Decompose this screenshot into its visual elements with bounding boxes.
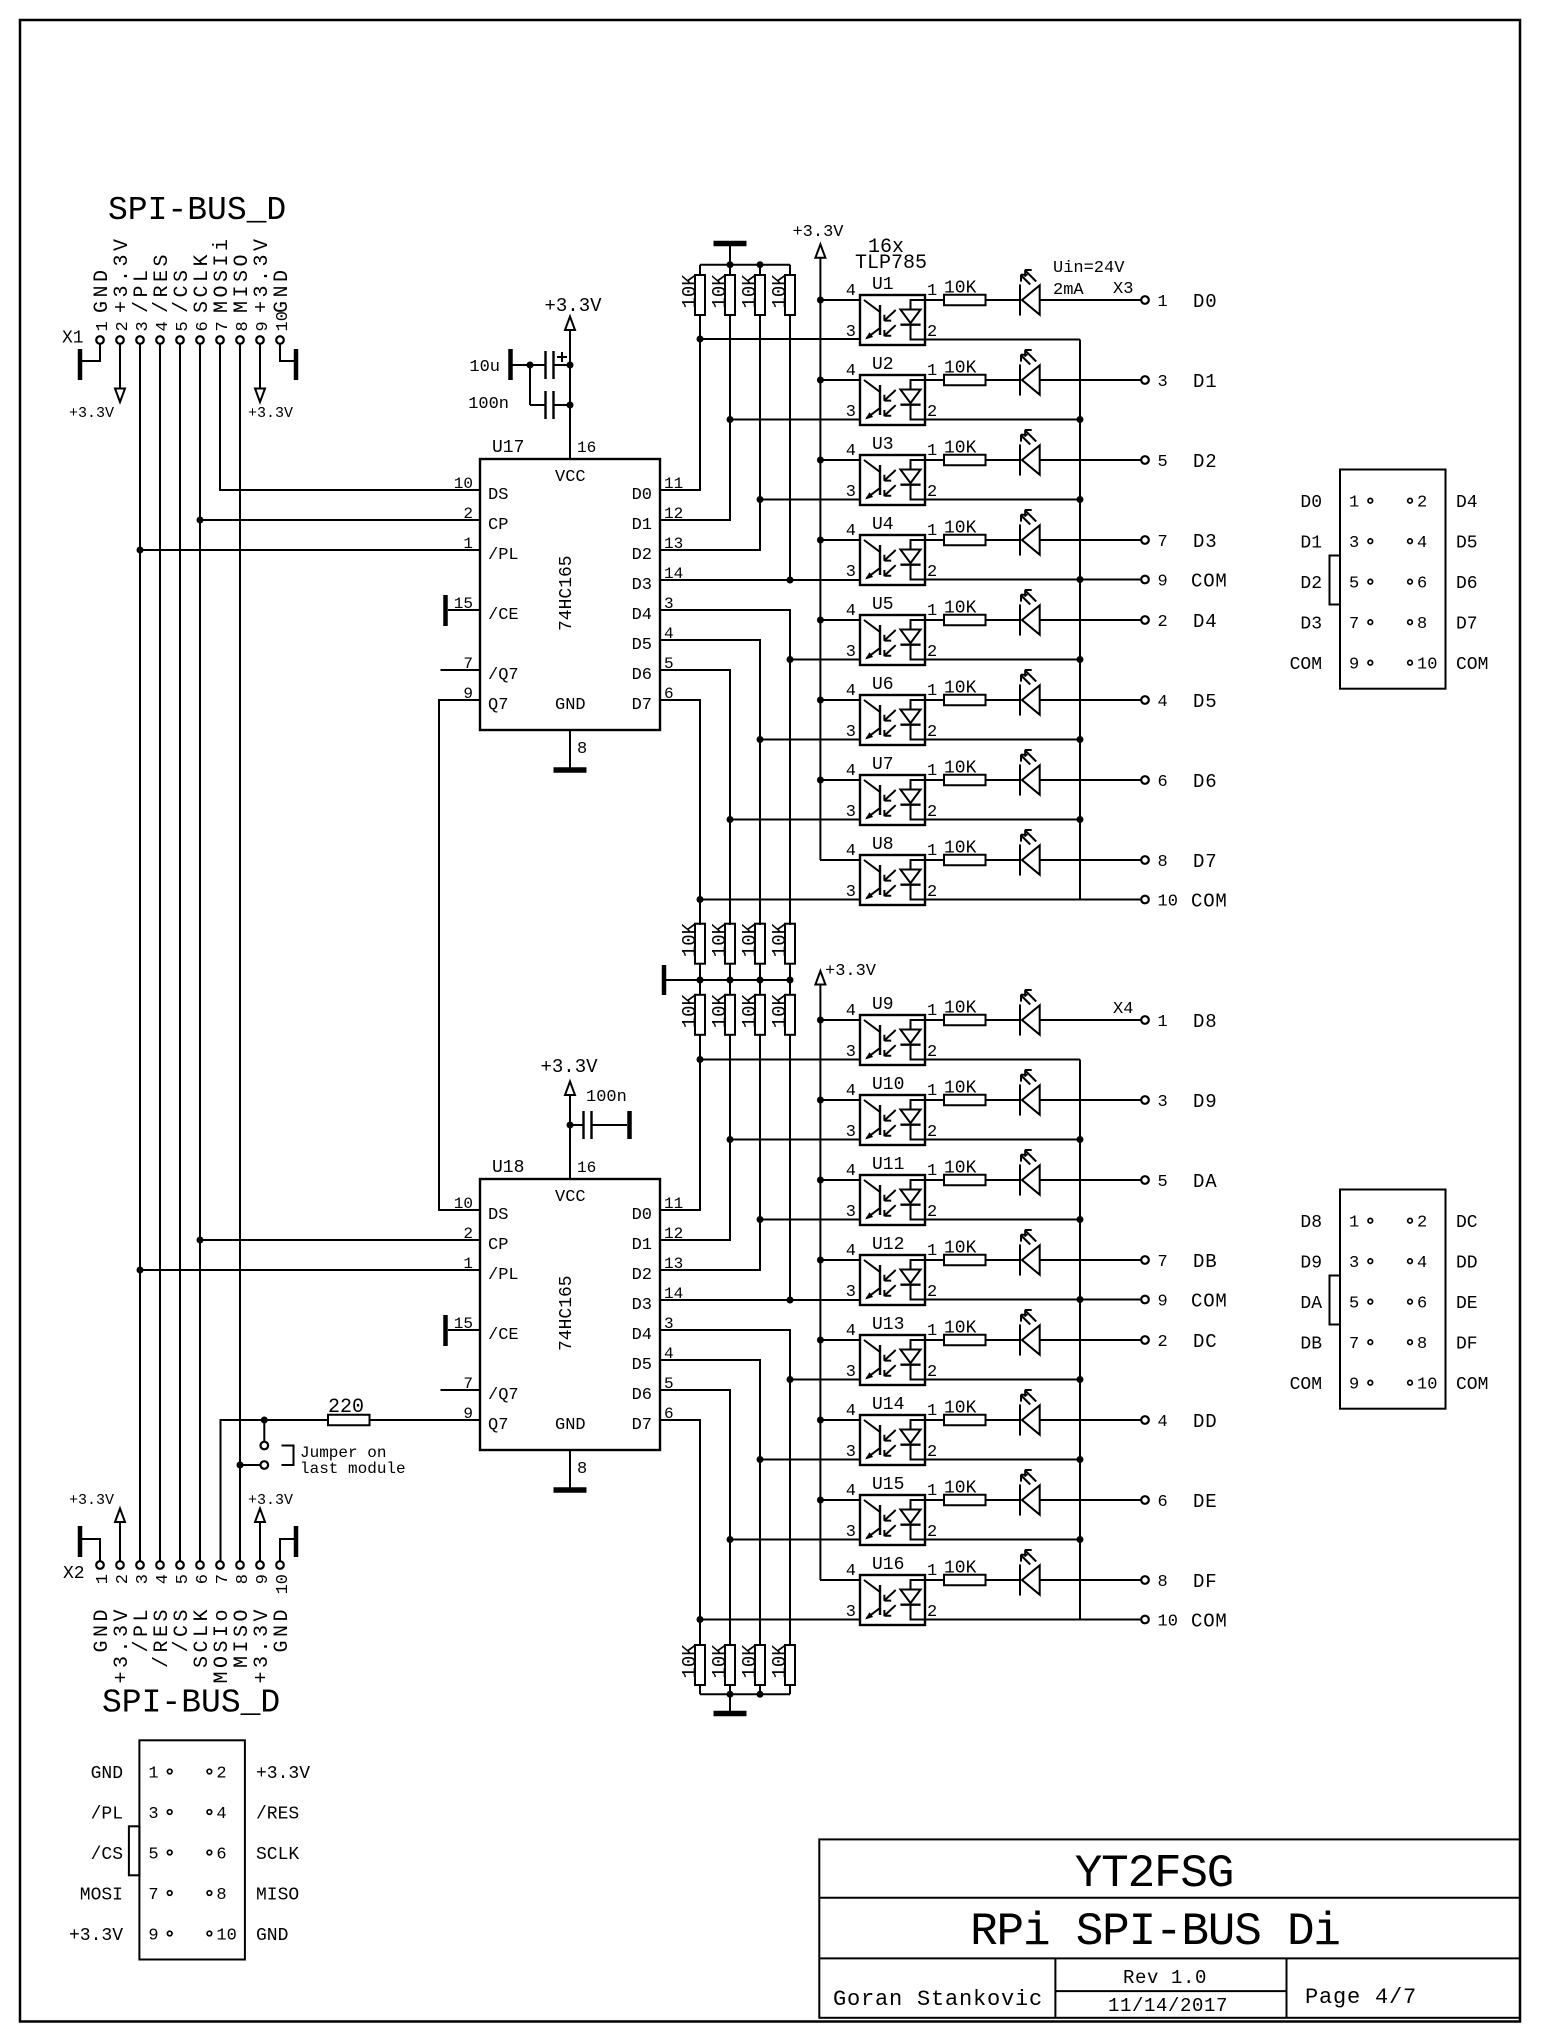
wire net DC	[660, 1330, 860, 1645]
junction SCLK-U18	[197, 1237, 204, 1244]
junction COM 1380	[1077, 1376, 1084, 1383]
svg-text:D1: D1	[632, 1236, 652, 1255]
svg-text:D2: D2	[632, 1266, 652, 1285]
junction D4	[787, 656, 794, 663]
svg-text:RPi SPI-BUS Di: RPi SPI-BUS Di	[970, 1906, 1340, 1958]
svg-text:7: 7	[214, 1574, 233, 1584]
svg-text:1: 1	[94, 1574, 113, 1584]
svg-text:10: 10	[1158, 1613, 1178, 1632]
svg-text:D3: D3	[632, 1296, 652, 1315]
svg-text:+3.3V: +3.3V	[248, 405, 293, 422]
svg-text:DS: DS	[488, 486, 508, 505]
svg-text:U10: U10	[872, 1075, 904, 1095]
junction D2	[757, 496, 764, 503]
svg-text:D6: D6	[632, 666, 652, 685]
wire net DA	[660, 1035, 860, 1270]
junction D3	[787, 577, 794, 584]
svg-text:COM: COM	[1191, 1291, 1228, 1313]
jumper (last module)	[240, 1420, 406, 1478]
svg-text:DB: DB	[1300, 1335, 1322, 1355]
svg-text:U12: U12	[872, 1235, 904, 1255]
supply +3.3V (U17 VCC)	[565, 317, 575, 331]
svg-text:7: 7	[214, 321, 233, 331]
junction middle bus x=730	[727, 977, 734, 984]
svg-text:/Q7: /Q7	[488, 1386, 519, 1405]
svg-text:D9: D9	[1300, 1254, 1322, 1274]
wire net D5	[660, 640, 860, 925]
junction middle bus x=700	[697, 977, 704, 984]
junction rail U4 pin4	[817, 537, 824, 544]
svg-text:+3.3V: +3.3V	[544, 295, 602, 317]
junction COM 1140	[1077, 1136, 1084, 1143]
resistor 10K / LED output DB	[925, 1230, 1149, 1276]
svg-text:last module: last module	[300, 1460, 406, 1478]
svg-text:DD: DD	[1456, 1254, 1478, 1274]
junction D1	[727, 416, 734, 423]
wire bottom bank bus	[700, 1685, 790, 1711]
optocoupler U11 TLP785	[820, 1162, 1080, 1225]
svg-text:Uin=24V: Uin=24V	[1053, 259, 1125, 278]
svg-text:8: 8	[1158, 1573, 1168, 1592]
optocoupler U12 TLP785	[820, 1242, 1080, 1305]
U17 pin16 VCC wire	[569, 330, 571, 459]
svg-text:D9: D9	[1193, 1091, 1217, 1113]
resistor 10K / LED output DE	[925, 1470, 1149, 1516]
resistor 10K / LED output DC	[925, 1310, 1149, 1356]
svg-text:GND: GND	[271, 266, 294, 313]
svg-text:D7: D7	[1456, 615, 1478, 635]
svg-text:74HC165: 74HC165	[557, 555, 577, 631]
junction bottom bus 2	[757, 1691, 764, 1698]
svg-text:U6: U6	[872, 675, 894, 695]
resistor 10K pull-down (bottom bank 3)	[739, 1644, 765, 1685]
svg-text:SPI-BUS_D: SPI-BUS_D	[108, 192, 286, 229]
svg-text:U14: U14	[872, 1395, 904, 1415]
svg-text:X3: X3	[1113, 280, 1133, 299]
wire U17 Q7 to U18 DS	[439, 700, 480, 1210]
optocoupler U5 TLP785	[820, 602, 1080, 665]
resistor 10K / LED output DD	[925, 1390, 1149, 1436]
svg-text:D0: D0	[632, 486, 652, 505]
resistor 10K / LED output D1	[925, 350, 1149, 396]
svg-text:U18: U18	[492, 1158, 524, 1178]
ground (X2 pin 1)	[82, 1539, 100, 1561]
resistor 10K pull-down (bottom bank 2)	[709, 1644, 735, 1685]
supply +3.3V (X2 pin 2)	[119, 1522, 121, 1561]
svg-text:U15: U15	[872, 1475, 904, 1495]
svg-text:+3.3V: +3.3V	[69, 405, 114, 422]
svg-text:5: 5	[1158, 453, 1168, 472]
svg-text:U2: U2	[872, 355, 894, 375]
resistor 10K pull-down (mid bottom 4)	[769, 993, 795, 1034]
resistor 10K / LED output D8	[925, 990, 1149, 1036]
junction D5	[757, 736, 764, 743]
svg-text:DF: DF	[1193, 1571, 1217, 1593]
junction COM 1300	[1077, 1296, 1084, 1303]
svg-text:10: 10	[274, 311, 293, 331]
ground (U17 pin 8)	[569, 730, 571, 768]
resistor 10K / LED output D2	[925, 430, 1149, 476]
svg-text:COM: COM	[1456, 1375, 1488, 1395]
svg-text:VCC: VCC	[555, 1188, 586, 1207]
svg-text:/RES: /RES	[256, 1805, 299, 1825]
svg-text:DS: DS	[488, 1206, 508, 1225]
svg-text:GND: GND	[256, 1926, 288, 1946]
optocoupler U3 TLP785	[820, 442, 1080, 505]
svg-text:D0: D0	[632, 1206, 652, 1225]
optocoupler U9 TLP785	[820, 1002, 1080, 1065]
svg-text:DB: DB	[1193, 1251, 1217, 1273]
svg-text:D8: D8	[1300, 1213, 1322, 1233]
svg-text:U1: U1	[872, 275, 894, 295]
junction MOSIo-jumper	[261, 1417, 268, 1424]
svg-text:11/14/2017: 11/14/2017	[1108, 1995, 1228, 2017]
svg-text:2mA: 2mA	[1053, 281, 1084, 300]
connector X3 pin 10 COM	[1141, 896, 1149, 904]
svg-text:X2: X2	[63, 1564, 85, 1584]
junction COM 500	[1077, 496, 1084, 503]
svg-text:+3.3V: +3.3V	[69, 1926, 123, 1946]
junction COM 1540	[1077, 1536, 1084, 1543]
wire net D3	[660, 315, 860, 580]
svg-text:D2: D2	[1193, 451, 1217, 473]
ground (bottom resistor bank)	[714, 1713, 747, 1715]
optocoupler U10 TLP785	[820, 1082, 1080, 1145]
wire cap link	[529, 365, 531, 405]
svg-text:D1: D1	[1193, 371, 1217, 393]
svg-text:COM: COM	[1290, 655, 1322, 675]
ground (X2 pin 10)	[280, 1539, 294, 1561]
junction COM 660	[1077, 656, 1084, 663]
svg-text:5: 5	[1158, 1173, 1168, 1192]
title block	[819, 1839, 1520, 2017]
optocoupler U6 TLP785	[820, 682, 1080, 745]
svg-text:DA: DA	[1193, 1171, 1217, 1193]
resistor 10K / LED output D3	[925, 510, 1149, 556]
IC U18 74HC165	[454, 1158, 683, 1450]
junction COM 1220	[1077, 1216, 1084, 1223]
resistor 10K / LED output D0	[925, 270, 1149, 316]
svg-text:1: 1	[1158, 293, 1168, 312]
svg-text:+3.3V: +3.3V	[248, 1492, 293, 1509]
resistor 10K pull-down (mid top 2)	[709, 922, 735, 963]
junction COM 820	[1077, 816, 1084, 823]
svg-text:U4: U4	[872, 515, 894, 535]
svg-text:+3.3V: +3.3V	[792, 223, 844, 242]
resistor 10K pull-down (mid bottom 2)	[709, 993, 735, 1034]
svg-text:U17: U17	[492, 438, 524, 458]
svg-text:9: 9	[1158, 1293, 1168, 1312]
svg-text:X1: X1	[62, 329, 84, 349]
junction DB	[787, 1297, 794, 1304]
svg-text:74HC165: 74HC165	[557, 1275, 577, 1351]
junction rail U3 pin4	[817, 457, 824, 464]
svg-text:D1: D1	[632, 516, 652, 535]
svg-text:D6: D6	[1193, 771, 1217, 793]
svg-text:/CS: /CS	[91, 1845, 123, 1865]
svg-text:U5: U5	[872, 595, 894, 615]
wire net MOSIi	[220, 344, 480, 490]
svg-text:1: 1	[1158, 1013, 1168, 1032]
junction rail U7 pin4	[817, 777, 824, 784]
svg-text:2: 2	[463, 505, 473, 523]
ground (X1 pin 10)	[280, 344, 294, 361]
U18 pin /Q7 stub	[441, 1389, 481, 1391]
svg-text:SCLK: SCLK	[256, 1845, 299, 1865]
ground (U18 pin 8)	[569, 1450, 571, 1488]
optocoupler U2 TLP785	[820, 362, 1080, 425]
svg-text:X4: X4	[1113, 1000, 1133, 1019]
junction COM 1460	[1077, 1456, 1084, 1463]
svg-text:8: 8	[577, 740, 587, 759]
svg-text:U7: U7	[872, 755, 894, 775]
svg-text:Q7: Q7	[488, 696, 508, 715]
resistor 10K / LED output D7	[925, 830, 1149, 876]
svg-text:16: 16	[577, 1159, 596, 1177]
svg-text:COM: COM	[1191, 1611, 1228, 1633]
svg-text:DE: DE	[1456, 1294, 1478, 1314]
junction rail U10 pin4	[817, 1097, 824, 1104]
junction MISO-jumper	[237, 1462, 244, 1469]
junction rail U6 pin4	[817, 697, 824, 704]
junction COM 580	[1077, 576, 1084, 583]
svg-text:16: 16	[577, 439, 596, 457]
svg-text:5: 5	[174, 1574, 193, 1584]
wire net D1	[660, 315, 860, 520]
svg-text:/Q7: /Q7	[488, 666, 519, 685]
resistor 10K pull-down (top bank 3)	[739, 274, 765, 315]
resistor 10K / LED output DA	[925, 1150, 1149, 1196]
svg-text:MOSI: MOSI	[80, 1886, 123, 1906]
svg-text:COM: COM	[1191, 571, 1228, 593]
junction rail U5 pin4	[817, 617, 824, 624]
svg-text:D7: D7	[632, 1416, 652, 1435]
svg-text:+3.3V: +3.3V	[825, 962, 877, 981]
svg-text:CP: CP	[488, 516, 508, 535]
resistor 10K pull-down (top bank 2)	[709, 274, 735, 315]
svg-text:U3: U3	[872, 435, 894, 455]
wire net COM (lower)	[1080, 1060, 1141, 1620]
svg-text:10u: 10u	[469, 358, 500, 377]
optocoupler U8 TLP785	[820, 842, 1080, 905]
junction COM 420	[1077, 416, 1084, 423]
resistor 220 (MOSI out)	[328, 1396, 480, 1425]
junction middle bus x=760	[757, 977, 764, 984]
svg-text:9: 9	[254, 1574, 273, 1584]
svg-text:6: 6	[1158, 773, 1168, 792]
svg-text:3: 3	[1158, 373, 1168, 392]
resistor 10K / LED output D9	[925, 1070, 1149, 1116]
svg-text:4: 4	[1158, 693, 1168, 712]
junction rail U9 pin4	[817, 1017, 824, 1024]
svg-text:D0: D0	[1300, 493, 1322, 513]
wire top bank bus	[700, 265, 790, 275]
junction 100n-VCC	[567, 402, 574, 409]
svg-text:DA: DA	[1300, 1294, 1322, 1314]
svg-text:DE: DE	[1193, 1491, 1217, 1513]
svg-text:GND: GND	[555, 696, 586, 715]
junction rail U15 pin4	[817, 1497, 824, 1504]
resistor 10K / LED output DF	[925, 1550, 1149, 1596]
svg-text:2: 2	[114, 321, 133, 331]
junction 10u-VCC	[567, 362, 574, 369]
svg-text:9: 9	[254, 321, 273, 331]
junction D7	[697, 896, 704, 903]
junction /PL-U18	[137, 1267, 144, 1274]
svg-text:D4: D4	[632, 1326, 652, 1345]
svg-text:4: 4	[154, 321, 173, 331]
svg-text:U11: U11	[872, 1155, 904, 1175]
svg-text:/PL: /PL	[488, 1266, 519, 1285]
junction D9	[727, 1136, 734, 1143]
svg-text:U16: U16	[872, 1555, 904, 1575]
svg-text:MISO: MISO	[256, 1886, 299, 1906]
capacitor 100n (U17)	[468, 391, 570, 419]
resistor 10K pull-down (mid top 3)	[739, 922, 765, 963]
svg-text:D7: D7	[1193, 851, 1217, 873]
junction rail U2 pin4	[817, 377, 824, 384]
svg-text:4: 4	[1158, 1413, 1168, 1432]
resistor 10K / LED output D4	[925, 590, 1149, 636]
svg-text:9: 9	[1158, 573, 1168, 592]
svg-text:D2: D2	[1300, 574, 1322, 594]
resistor 10K pull-down (top bank 4)	[769, 274, 795, 315]
svg-text:6: 6	[194, 321, 213, 331]
svg-text:8: 8	[577, 1460, 587, 1479]
svg-text:D6: D6	[632, 1386, 652, 1405]
svg-text:4: 4	[154, 1574, 173, 1584]
ground (middle resistor bank)	[662, 965, 667, 995]
svg-text:D0: D0	[1193, 291, 1217, 313]
wire net D2	[660, 315, 860, 550]
svg-text:D3: D3	[1193, 531, 1217, 553]
junction DE	[727, 1536, 734, 1543]
wire net DD	[660, 1360, 860, 1645]
optocoupler U16 TLP785	[820, 1562, 1080, 1625]
svg-text:1: 1	[463, 535, 473, 553]
svg-text:U9: U9	[872, 995, 894, 1015]
junction D0	[697, 336, 704, 343]
svg-text:2: 2	[463, 1225, 473, 1243]
wire net DB	[660, 1035, 860, 1300]
svg-text:2: 2	[114, 1574, 133, 1584]
svg-text:/CE: /CE	[488, 606, 519, 625]
junction COM 740	[1077, 736, 1084, 743]
svg-text:Goran Stankovic: Goran Stankovic	[833, 1987, 1043, 2012]
svg-text:D7: D7	[632, 696, 652, 715]
svg-text:COM: COM	[1290, 1375, 1322, 1395]
svg-text:D4: D4	[1456, 493, 1478, 513]
junction rail U14 pin4	[817, 1417, 824, 1424]
svg-text:D3: D3	[1300, 615, 1322, 635]
svg-text:D8: D8	[1193, 1011, 1217, 1033]
resistor 10K / LED output D6	[925, 750, 1149, 796]
supply +3.3V (X1 pin 2)	[119, 344, 121, 389]
junction DD	[757, 1456, 764, 1463]
svg-text:D3: D3	[632, 576, 652, 595]
svg-text:D5: D5	[1456, 534, 1478, 554]
optocoupler U7 TLP785	[820, 762, 1080, 825]
junction bank bus 1	[727, 261, 734, 268]
svg-text:7: 7	[1158, 533, 1168, 552]
resistor 10K / LED output D5	[925, 670, 1149, 716]
svg-text:COM: COM	[1456, 655, 1488, 675]
svg-text:DC: DC	[1193, 1331, 1217, 1353]
svg-text:2: 2	[1158, 613, 1168, 632]
svg-text:+3.3V: +3.3V	[69, 1492, 114, 1509]
svg-text:VCC: VCC	[555, 468, 586, 487]
svg-text:2: 2	[1158, 1333, 1168, 1352]
resistor 10K pull-down (mid bottom 3)	[739, 993, 765, 1034]
svg-text:D1: D1	[1300, 534, 1322, 554]
svg-text:10: 10	[454, 475, 473, 493]
connector X3 pin 9 COM	[1141, 576, 1149, 584]
svg-text:D4: D4	[632, 606, 652, 625]
IC U17 74HC165	[454, 438, 683, 730]
resistor 10K pull-down (mid bottom 1)	[679, 993, 705, 1034]
svg-text:220: 220	[328, 1396, 364, 1419]
svg-text:D5: D5	[1193, 691, 1217, 713]
supply +3.3V (X1 pin 9)	[259, 344, 261, 389]
ground (X1 pin 1)	[82, 344, 100, 361]
supply +3.3V rail (lower optos)	[815, 971, 825, 985]
supply +3.3V (U18 VCC)	[565, 1082, 575, 1096]
junction SCLK-U17	[197, 517, 204, 524]
wire net D0	[660, 315, 860, 490]
junction rail U1 pin4	[817, 297, 824, 304]
svg-text:+3.3V: +3.3V	[540, 1056, 598, 1078]
supply +3.3V (X2 pin 9)	[259, 1522, 261, 1561]
junction DF	[697, 1616, 704, 1623]
svg-text:3: 3	[134, 1574, 153, 1584]
svg-text:8: 8	[234, 321, 253, 331]
optocoupler U4 TLP785	[820, 522, 1080, 585]
connector X1	[62, 235, 294, 348]
pinout table SPI-BUS_D	[69, 1740, 310, 1959]
wire net MOSIo	[221, 1420, 329, 1561]
ground (top resistor bank)	[714, 243, 747, 245]
svg-text:GND: GND	[91, 1764, 123, 1784]
svg-text:7: 7	[1158, 1253, 1168, 1272]
svg-text:Page 4/7: Page 4/7	[1305, 1985, 1417, 2010]
capacitor 10u	[469, 349, 570, 380]
svg-text:8: 8	[1158, 853, 1168, 872]
svg-text:U8: U8	[872, 835, 894, 855]
junction bottom bus 1	[727, 1691, 734, 1698]
svg-text:Q7: Q7	[488, 1416, 508, 1435]
junction D6	[727, 816, 734, 823]
svg-text:10: 10	[274, 1574, 293, 1594]
svg-text:D5: D5	[632, 636, 652, 655]
svg-text:TLP785: TLP785	[855, 252, 927, 275]
svg-text:DD: DD	[1193, 1411, 1217, 1433]
junction 100n-VCC (U18)	[567, 1122, 574, 1129]
U18 pin16 VCC wire	[569, 1095, 571, 1179]
capacitor 100n (U18)	[570, 1088, 630, 1139]
wire net DF	[660, 1420, 860, 1645]
svg-text:D4: D4	[1193, 611, 1217, 633]
wire net /CS	[179, 344, 181, 1561]
wire net D6	[660, 670, 860, 925]
svg-text:6: 6	[194, 1574, 213, 1584]
optocoupler U15 TLP785	[820, 1482, 1080, 1545]
optocoupler U1 TLP785	[820, 282, 1080, 345]
svg-text:COM: COM	[1191, 891, 1228, 913]
svg-text:100n: 100n	[468, 395, 509, 414]
svg-text:/PL: /PL	[488, 546, 519, 565]
junction rail U11 pin4	[817, 1177, 824, 1184]
resistor 10K pull-down (bottom bank 1)	[679, 1644, 705, 1685]
